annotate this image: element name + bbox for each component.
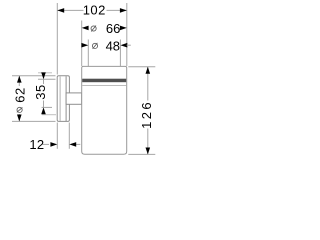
extension line 48 left [87, 40, 89, 67]
dimension 102 arrow left [57, 8, 64, 13]
dimension 66 arrow right [120, 26, 127, 31]
svg-text:35: 35 [33, 84, 48, 99]
mounting stem [66, 93, 82, 104]
dimension 48 tail [127, 44, 131, 46]
extension line 66 left (rim back) [81, 21, 83, 67]
dimension 102 line [57, 9, 83, 11]
extension line 62 top [12, 75, 56, 77]
dimension 126 arrow top [146, 67, 151, 74]
dimension 12 tails [43, 143, 49, 145]
tumbler glass body [82, 66, 127, 154]
extension line 35 top [38, 78, 56, 80]
dimension 62 line [18, 76, 20, 86]
extension line left of 102 (wall plane) [56, 3, 58, 75]
wall plate (escutcheon, side view) [57, 76, 69, 122]
holder ring dark band [82, 79, 126, 83]
extension line 126 bottom [128, 153, 155, 155]
wall plate front face edge [65, 76, 67, 121]
diameter symbol 66 [91, 26, 96, 32]
diameter symbol 62 (rotated column) [17, 107, 23, 112]
dimension 48 arrow left (outside) [81, 43, 88, 48]
svg-text:12: 12 [29, 137, 44, 152]
extension line 126 top [128, 66, 155, 68]
dimension 12 arrow left (outside pointing right) [50, 142, 57, 147]
diameter symbol 48 [92, 43, 97, 49]
svg-text:126: 126 [139, 100, 154, 129]
dimension 35 arrow bottom (outside pointing up) [41, 107, 46, 114]
dimension 62 arrow top [17, 76, 22, 83]
glass shoulder line [82, 84, 126, 86]
dimension 35 line [43, 79, 45, 84]
extension line right of 102 / 66 (glass front) [126, 3, 128, 66]
extension line 35 lower faint [42, 114, 56, 116]
dimension 12 arrow right (outside pointing left) [69, 142, 76, 147]
extension line 35 bottom [42, 106, 52, 108]
svg-text:66: 66 [106, 21, 120, 36]
svg-text:62: 62 [13, 87, 28, 102]
svg-text:48: 48 [106, 38, 120, 53]
wall plate inner edge line [59, 76, 61, 121]
dimension 62 arrow bottom [17, 115, 22, 122]
dimension 102 arrow right [120, 8, 127, 13]
extension line 12 left [56, 123, 58, 149]
extension line 48 right [119, 40, 121, 67]
extension line 35 upper faint [38, 72, 52, 74]
dimension 126 arrow bottom [146, 148, 151, 155]
svg-text:102: 102 [83, 2, 106, 17]
dimension 66 arrow left [82, 26, 89, 31]
extension line 12 right [68, 123, 70, 149]
extension line 62 bottom [12, 120, 56, 122]
dimension 126 line [147, 67, 149, 101]
dimension 48 arrow right (outside) [120, 43, 127, 48]
dimension 35 arrow top (outside pointing down) [41, 72, 46, 79]
